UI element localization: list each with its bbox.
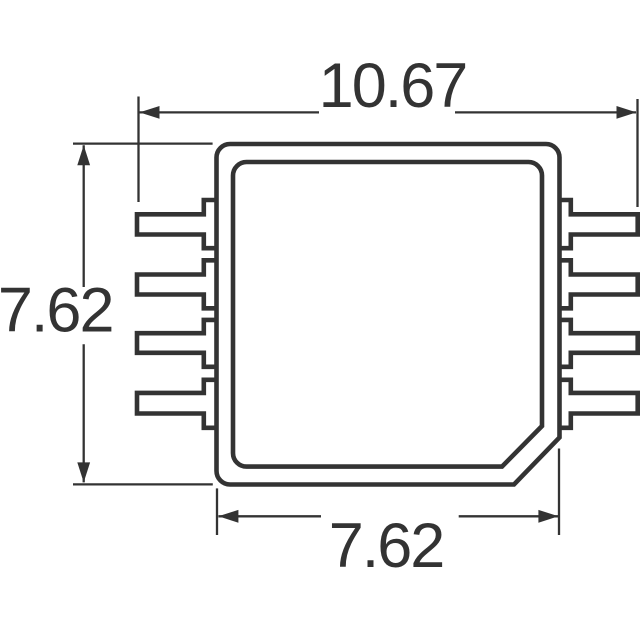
package body inner outline bbox=[233, 162, 542, 467]
left dimension arrow up bbox=[77, 145, 90, 165]
svg-text:7.62: 7.62 bbox=[0, 276, 113, 346]
package body outer outline bbox=[217, 144, 560, 485]
bottom dimension extension line right bbox=[558, 449, 560, 536]
bottom dimension extension line left bbox=[216, 488, 218, 535]
left dimension line lower segment bbox=[83, 344, 85, 482]
top dimension extension line left bbox=[137, 97, 139, 203]
top dimension line left segment bbox=[140, 111, 320, 113]
pin 4 left bbox=[137, 380, 217, 428]
top dimension extension line right bbox=[636, 99, 638, 207]
svg-text:10.67: 10.67 bbox=[319, 51, 467, 121]
pin 2 left bbox=[137, 260, 217, 308]
pin 1 left bbox=[137, 200, 217, 248]
bottom dimension arrow right bbox=[538, 510, 558, 523]
top dimension arrow right bbox=[617, 106, 637, 119]
left dimension arrow down bbox=[77, 462, 90, 482]
pin 3 left bbox=[137, 320, 217, 367]
pin 6 right bbox=[560, 320, 638, 367]
top dimension arrow left bbox=[140, 106, 160, 119]
left dimension line upper segment bbox=[83, 145, 85, 287]
bottom dimension line left segment bbox=[218, 515, 321, 517]
pin 8 right bbox=[560, 200, 638, 248]
top dimension line right segment bbox=[455, 111, 636, 113]
bottom dimension arrow left bbox=[218, 510, 238, 523]
left dimension extension line top bbox=[73, 142, 213, 144]
pin 5 right bbox=[560, 380, 638, 428]
bottom dimension line right segment bbox=[459, 515, 559, 517]
left dimension extension line bottom bbox=[73, 483, 213, 485]
pin 7 right bbox=[560, 260, 638, 308]
svg-text:7.62: 7.62 bbox=[329, 511, 444, 581]
